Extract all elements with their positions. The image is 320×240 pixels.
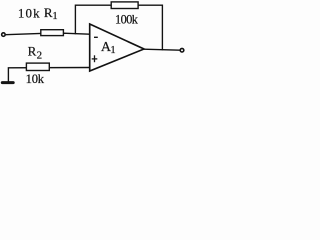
svg-text:2: 2 <box>37 50 43 62</box>
svg-text:1: 1 <box>110 45 115 56</box>
svg-text:100k: 100k <box>115 13 139 27</box>
svg-text:1: 1 <box>52 11 57 22</box>
svg-text:10k: 10k <box>18 6 41 21</box>
svg-text:10k: 10k <box>26 72 45 86</box>
svg-text:R: R <box>28 44 37 59</box>
